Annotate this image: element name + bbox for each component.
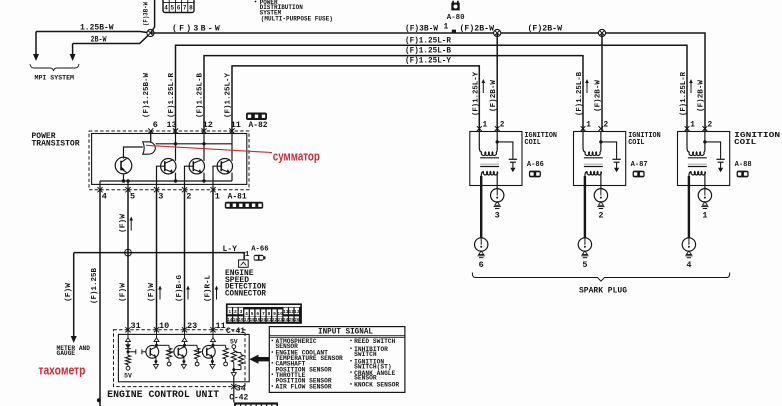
red label summator (273, 150, 320, 164)
svg-text:1: 1 (690, 122, 695, 130)
svg-text:(F)1.25L-R: (F)1.25L-R (680, 71, 688, 116)
svg-text:6: 6 (256, 311, 259, 317)
pin number 1 at A-66 (245, 251, 250, 259)
ECU resistor R1 on pin31 (125, 355, 130, 364)
pin number 12 top (203, 120, 213, 130)
pin number 34 (236, 383, 246, 393)
label (F)1.25L-R vertical at pin 13 wire (168, 72, 176, 118)
pin 12 top crossing (201, 128, 206, 133)
label (F)W below junction pin5 (119, 282, 127, 302)
connector C-42 strip (clipped) (234, 402, 278, 406)
svg-text:A-87: A-87 (631, 161, 648, 169)
label METER AND GAUGE (57, 345, 91, 357)
label ENGINE CONTROL UNIT (107, 389, 219, 400)
pin 3 bottom crossing (154, 187, 159, 192)
wire 1.25B-W to MPI system with down arrow (33, 24, 151, 62)
wire Q2 base to pin 3 (157, 166, 161, 190)
label (F)3B-W right on bus (405, 25, 438, 34)
brace and label MPI SYSTEM (30, 64, 79, 82)
label (F)W meter branch (65, 282, 73, 302)
pin 6 top crossing (148, 128, 153, 133)
svg-text:A-82: A-82 (249, 122, 268, 130)
coil2 drop labels (F)1.25L-B and (F)2B-W with flow arrow (576, 71, 603, 116)
pin number 2 bottom (186, 191, 191, 201)
svg-text:5V: 5V (124, 373, 132, 380)
svg-text:INPUT SIGNAL: INPUT SIGNAL (318, 328, 373, 337)
svg-text:9: 9 (273, 311, 276, 317)
wire pin11 collector into Q4 (231, 131, 233, 161)
flow arrow pin5 (129, 217, 133, 231)
svg-text:7: 7 (183, 5, 187, 12)
svg-text:1: 1 (215, 191, 220, 201)
ignition coil 2 with spark plugs 2 and 5 (574, 122, 661, 270)
svg-text:(F)1.25L-B: (F)1.25L-B (196, 72, 204, 118)
svg-text:4: 4 (245, 311, 248, 317)
svg-text:COIL: COIL (525, 139, 541, 147)
ECU pin number 11 (216, 321, 226, 331)
svg-text:(F)B-G: (F)B-G (176, 274, 184, 302)
svg-text:2: 2 (186, 191, 191, 201)
ECU driver cell pin11 (transistor, resistor, ground) (198, 330, 228, 369)
wire (F)1.25L-B from power transistor pin 12 to coil2 pin 1 (204, 56, 583, 132)
wire pin12 collector into Q3 (203, 131, 205, 161)
pin number 3 bottom (158, 191, 163, 201)
svg-text:(F)2B-W: (F)2B-W (698, 79, 706, 112)
wire 2B-W drop to coil2 pin 2 (601, 33, 603, 132)
wire from fuse block down to splice (151, 0, 155, 33)
svg-text:A-86: A-86 (527, 161, 545, 169)
pin number 13 top (167, 120, 177, 130)
svg-text:A-88: A-88 (735, 161, 753, 169)
wire pin13 collector into Q2 (175, 131, 177, 161)
svg-text:2: 2 (708, 122, 713, 130)
ECU diode D1 on pin31 (125, 341, 131, 348)
svg-text:A-66: A-66 (251, 246, 269, 254)
wire Q3 base to pin 2 (185, 166, 190, 190)
INPUT SIGNAL box with sensor list (269, 327, 405, 393)
svg-text:(F)W: (F)W (148, 282, 156, 302)
ECU pin number 31 (131, 321, 141, 331)
svg-text:3: 3 (240, 309, 243, 315)
ECU dashed enclosure (114, 330, 246, 387)
ECU pin31 input triangle (126, 330, 131, 342)
svg-text:A-81: A-81 (228, 194, 247, 202)
connector A-80 pin 1 inline (444, 23, 457, 33)
ECU pin31 5V terminal (124, 365, 132, 380)
svg-text:REED SWITCH: REED SWITCH (354, 338, 395, 345)
ECU pin 23 crossing (182, 327, 187, 332)
splice junction top-left (F)3B-W (147, 29, 154, 36)
wire Q2 emitter down to bus (175, 173, 177, 181)
flow arrow pin1 (215, 286, 219, 300)
ECU driver cell pin23 (transistor, resistor, ground) (170, 330, 200, 369)
wire gate input from transistor Q1 (124, 147, 143, 157)
circled junction tach wire at pin5 (125, 249, 132, 256)
svg-text:(F)1.25B: (F)1.25B (91, 267, 99, 304)
svg-text:(F)1.25B-W: (F)1.25B-W (143, 72, 151, 118)
tach signal wire L-Y to engine speed connector (74, 253, 245, 260)
svg-text:(F)W: (F)W (119, 282, 127, 302)
label (F)W pin3 (148, 282, 156, 302)
junction gate line x pin13 (174, 142, 177, 145)
svg-text:11: 11 (231, 120, 241, 130)
svg-text:4: 4 (164, 5, 168, 12)
summing gate (op-amp style) inside power transistor (143, 142, 155, 154)
ignition coil 3 with spark plugs 1 and 4 (678, 122, 781, 270)
pin number 5 bottom (130, 191, 135, 201)
wire Q1 emitter to ground bus (123, 174, 125, 181)
transistor Q4 (217, 159, 232, 174)
svg-text:(F)3B-W: (F)3B-W (172, 25, 222, 34)
wire (F)3B-W / 2B-W top bus to coils (151, 33, 706, 132)
ECU pin 11 crossing (210, 327, 215, 332)
svg-text:(F)2B-W: (F)2B-W (490, 79, 498, 112)
wire pin 3 (F)W down to ECU pin 10 (156, 190, 158, 330)
wire pin 5 (F)W down to ECU pin 31 (127, 190, 129, 330)
gate output wire to transistor collectors (156, 143, 232, 145)
input signal arrow to ECU (249, 355, 269, 364)
wire branch to meter and gauge with arrow (71, 253, 77, 343)
flow arrow pin3 (158, 286, 162, 300)
svg-text:4: 4 (102, 191, 107, 201)
svg-text:A-80: A-80 (447, 14, 465, 22)
svg-text:1: 1 (444, 23, 449, 32)
wire bus to pin 4 (99, 181, 101, 190)
wire Q4 emitter down to bus corner (231, 173, 233, 181)
pin number 11 top (231, 120, 241, 130)
svg-text:5: 5 (251, 311, 254, 317)
svg-text:5: 5 (130, 191, 135, 201)
wire Q4 base to pin 1 (213, 166, 217, 190)
red callout line to summator (146, 145, 272, 152)
svg-text:C-42: C-42 (229, 393, 248, 402)
svg-text:13: 13 (167, 120, 177, 130)
svg-text:(F)2B-W: (F)2B-W (528, 25, 563, 34)
pin number 6 top (153, 120, 158, 130)
label (F)1.25L-B on horizontal run (405, 47, 451, 56)
svg-text:(F)W: (F)W (119, 213, 127, 233)
pin 2 bottom crossing (182, 187, 187, 192)
pin number 1 bottom (215, 191, 220, 201)
power transistor dashed enclosure (89, 131, 249, 190)
svg-text:26: 26 (294, 318, 300, 323)
svg-text:2: 2 (234, 309, 237, 315)
svg-text:(F)2B-W: (F)2B-W (460, 25, 495, 34)
svg-text:тахометр: тахометр (38, 363, 85, 377)
ECU pin 31 crossing (125, 327, 130, 332)
svg-text:сумматор: сумматор (273, 150, 320, 164)
svg-text:(F)2B-W: (F)2B-W (595, 79, 603, 112)
ECU pin 34 crossing (231, 384, 236, 389)
svg-text:2: 2 (500, 122, 505, 130)
junction Q3 emitter on bus (202, 179, 205, 182)
svg-text:3: 3 (158, 191, 163, 201)
wire pin 4 (F)1.25B down to bottom edge (97, 190, 101, 406)
svg-text:1: 1 (483, 122, 488, 130)
connector A-82 icon and label (246, 113, 268, 131)
ECU inner box (118, 334, 249, 381)
coil3 drop labels (F)1.25L-R and (F)2B-W with flow arrow (680, 71, 706, 116)
ignition coil 1 with spark plugs 3 and 6 (470, 122, 557, 270)
label (F)1.25L-R on horizontal run (405, 36, 451, 45)
splice junction bus to coil2 2B-W (598, 29, 605, 36)
flow arrow pin2 (186, 286, 190, 300)
svg-text:6: 6 (153, 120, 158, 130)
wire bus to pin 5 (127, 181, 129, 190)
svg-text:(MULTI-PURPOSE FUSE): (MULTI-PURPOSE FUSE) (261, 15, 333, 22)
ECU pin number 10 (159, 321, 169, 331)
label (F)2B-W on bus segment 2 (528, 25, 563, 34)
svg-text:2: 2 (604, 122, 609, 130)
ECU 5V pull-up pair and pin 34 output (230, 338, 244, 402)
wire (F)1.25L-Y from power transistor pin 11 to coil1 pin 1 (232, 66, 479, 132)
label (F)3B-W vertical top-left (143, 2, 150, 26)
svg-text:3: 3 (495, 211, 500, 221)
pin 4 bottom crossing (97, 187, 102, 192)
svg-text:5: 5 (582, 260, 587, 270)
svg-text:SWITCH: SWITCH (354, 351, 377, 358)
svg-text:(F)1.25L-Y: (F)1.25L-Y (224, 72, 232, 118)
spark plug brace (472, 273, 729, 282)
label C-42 (229, 393, 248, 402)
svg-text:12: 12 (203, 120, 213, 130)
svg-text:(F)W: (F)W (65, 282, 73, 302)
label (F)B-G pin2 (176, 274, 184, 302)
label (F)1.25L-Y vertical at pin 11 wire (224, 72, 232, 118)
red label tachometer (38, 363, 85, 377)
wire 2B-W to MPI system with down arrow (70, 33, 151, 61)
pin 13 top crossing (173, 128, 178, 133)
svg-text:COIL: COIL (734, 139, 756, 147)
connector A-66 icon and label (251, 246, 269, 261)
splice junction bus to coil1 2B-W (494, 29, 501, 36)
junction pin5 on bus (126, 179, 129, 182)
svg-text:1: 1 (228, 309, 231, 315)
coil1 drop labels (F)1.25L-Y and (F)2B-W with flow arrow (472, 71, 498, 116)
svg-text:GAUGE: GAUGE (57, 350, 76, 357)
svg-text:8: 8 (189, 5, 193, 12)
pin 1 bottom crossing (210, 187, 215, 192)
svg-text:MPI SYSTEM: MPI SYSTEM (35, 75, 75, 82)
svg-text:8: 8 (268, 311, 271, 317)
svg-text:1: 1 (245, 251, 250, 259)
label POWER TRANSISTOR (32, 132, 80, 149)
svg-text:(F)1.25L-B: (F)1.25L-B (576, 71, 584, 116)
wire Q3 emitter down to bus (203, 173, 205, 181)
svg-text:2B-W: 2B-W (91, 36, 107, 45)
label (F)1.25B vertical (91, 267, 99, 304)
svg-text:1.25B-W: 1.25B-W (80, 24, 114, 33)
svg-text:13: 13 (294, 309, 300, 315)
label C-41 (226, 327, 245, 336)
wire 2B-W drop to coil1 pin 2 (496, 33, 498, 132)
svg-text:(F)1.25L-B: (F)1.25L-B (405, 47, 451, 56)
svg-text:CONNECTOR: CONNECTOR (225, 289, 266, 298)
note POWER DISTRIBUTION SYSTEM (MULTI-PURPOSE FUSE) (255, 0, 333, 22)
label (F)R-L pin1 (204, 275, 212, 302)
svg-text:(F)R-L: (F)R-L (204, 275, 212, 302)
connector A-81 label and icon (225, 194, 263, 209)
svg-text:ENGINE CONTROL UNIT: ENGINE CONTROL UNIT (107, 389, 219, 400)
label (F)2B-W on bus segment 1 (460, 25, 495, 34)
svg-text:KNOCK SENSOR: KNOCK SENSOR (354, 382, 399, 389)
label (F)1.25L-B vertical at pin 12 wire (196, 72, 204, 118)
connector A-80 icon and label (447, 1, 465, 22)
svg-text:(F)1.25L-R: (F)1.25L-R (405, 36, 451, 45)
svg-text:1: 1 (702, 211, 707, 221)
svg-text:1: 1 (586, 122, 591, 130)
junction Q1 on bus (122, 179, 125, 182)
svg-text:6: 6 (479, 260, 484, 270)
svg-text:34: 34 (236, 383, 246, 393)
wire pin 2 (F)B-G down to ECU pin 23 (184, 190, 186, 330)
label ENGINE SPEED DETECTION CONNECTOR (225, 269, 266, 298)
svg-text:4: 4 (686, 260, 691, 270)
ECU driver cell pin10 (transistor, resistor, ground) (142, 330, 172, 369)
pin 5 bottom crossing (125, 187, 130, 192)
wire (F)1.25L-R from power transistor pin 13 to coil3 pin 1 (176, 45, 688, 131)
ECU pin 10 crossing (154, 327, 159, 332)
label (F)1.25B-W vertical at pin 6 wire (143, 72, 151, 118)
engine speed detection connector pin symbol (239, 260, 249, 267)
ECU pin number 23 (187, 321, 197, 331)
pin 11 top crossing (229, 128, 234, 133)
svg-text:(F)1.25L-Y: (F)1.25L-Y (472, 71, 480, 116)
transistor Q2 (161, 159, 176, 174)
svg-text:TRANSISTOR: TRANSISTOR (32, 140, 80, 149)
wire pin 6 into summing gate (150, 131, 152, 142)
svg-text:COIL: COIL (628, 139, 644, 147)
emitter ground bus (100, 180, 232, 182)
svg-text:SPARK PLUG: SPARK PLUG (579, 286, 627, 295)
svg-text:6: 6 (177, 5, 181, 12)
svg-text:7: 7 (262, 311, 265, 317)
transistor Q3 (189, 159, 204, 174)
svg-text:L-Y: L-Y (223, 246, 238, 254)
junction gate line x pin12 (202, 142, 205, 145)
label (F)3B-W left on bus (172, 25, 222, 34)
svg-text:(F)3B-W: (F)3B-W (143, 2, 150, 26)
wire pin 1 (F)R-L down to ECU pin 11 (212, 190, 214, 330)
transistor Q1 (tach driver PNP) (115, 157, 132, 174)
fuse block connector top (pins 4-8) (163, 0, 194, 13)
pin number 4 bottom (102, 191, 107, 201)
svg-text:5: 5 (170, 5, 174, 12)
connector C-41 strip (226, 303, 302, 323)
svg-text:2: 2 (598, 211, 603, 221)
svg-text:AIR FLOW SENSOR: AIR FLOW SENSOR (276, 384, 332, 391)
label L-Y (223, 246, 238, 254)
ECU pin31 junction and base stub (127, 349, 136, 356)
svg-text:SENSOR: SENSOR (354, 375, 377, 382)
label (F)1.25L-Y on horizontal run (405, 57, 451, 66)
svg-text:(F)1.25L-R: (F)1.25L-R (168, 72, 176, 118)
svg-text:(F)1.25L-Y: (F)1.25L-Y (405, 57, 451, 66)
label SPARK PLUG (579, 286, 627, 295)
svg-text:(F)3B-W: (F)3B-W (405, 25, 438, 34)
label (F)W above junction (119, 213, 127, 233)
junction Q2 emitter on bus (174, 179, 177, 182)
power transistor inner box (92, 134, 247, 185)
